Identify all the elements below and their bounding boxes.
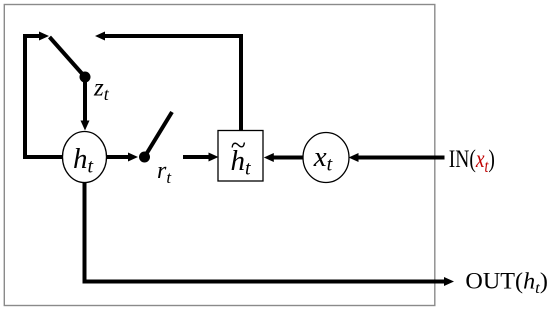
box h~_t [218,131,263,182]
node: switch pivot r_t [139,152,150,163]
label OUT(h_t) [465,269,547,297]
circle h_t [63,132,107,183]
wire: h_t left loop up to switch contact [25,36,63,157]
label IN(x_t) [449,145,495,177]
wire: r switch to h~ box [183,155,210,159]
svg-text:IN(xt): IN(xt) [449,145,495,177]
circle x_t [303,133,349,183]
node: switch pivot z_t [80,72,91,83]
wire: x_t to h~ box [273,156,303,160]
wire: z_t pivot down into h_t [83,77,87,122]
wire: switch z_t lever [50,37,86,77]
wire: IN arrow into x_t [358,156,445,160]
wire: h_t down and out [85,182,446,282]
cell boundary box [4,5,435,306]
wire: switch r_t lever [145,112,173,157]
svg-text:~: ~ [231,131,246,162]
wire: feedback from h~ box top to z switch [104,36,241,130]
wire: h_t to r switch [107,155,129,159]
